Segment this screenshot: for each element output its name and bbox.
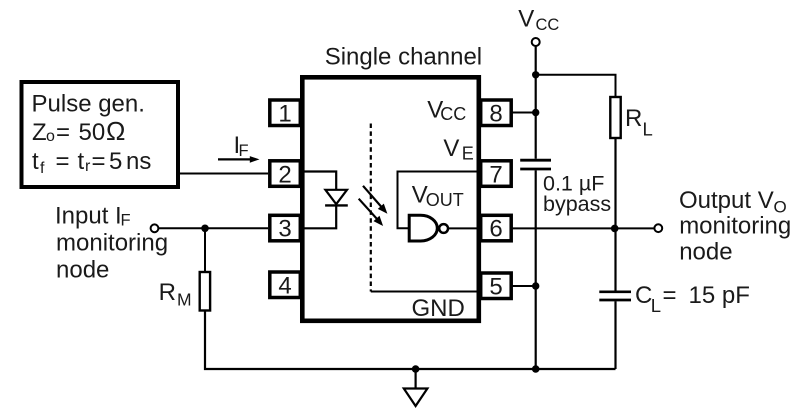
svg-text:3: 3 xyxy=(278,216,291,243)
svg-text:7: 7 xyxy=(489,161,502,188)
junction dot input/RM xyxy=(201,225,209,233)
wire pulse gen to pin 2 xyxy=(178,173,268,175)
svg-text:Z: Z xyxy=(32,119,47,146)
svg-text:Ω: Ω xyxy=(106,116,125,146)
wire bypass cap to pin5 node xyxy=(535,170,537,369)
junction dot pin8 xyxy=(532,109,539,116)
pin 6 box xyxy=(481,215,512,241)
junction dot bottom rail xyxy=(532,365,540,373)
svg-text:5: 5 xyxy=(109,148,122,175)
wire pin 5 to GND rail xyxy=(511,285,536,287)
pulse generator value "Zo = 50 ohm" xyxy=(32,116,125,146)
svg-text:f: f xyxy=(40,160,45,177)
svg-text:t: t xyxy=(78,148,85,175)
pin 2 box xyxy=(270,161,301,187)
svg-text:GND: GND xyxy=(412,295,465,322)
wire VCC rail to RL xyxy=(536,75,616,97)
svg-text:8: 8 xyxy=(489,100,502,127)
svg-text:=: = xyxy=(56,148,70,175)
wire output node to CL xyxy=(614,228,616,290)
svg-text:1: 1 xyxy=(278,100,291,127)
svg-text:R: R xyxy=(159,279,176,306)
resistor RL xyxy=(610,97,620,138)
light arrow 2 xyxy=(359,199,383,226)
wire LED cathode to pin3 xyxy=(304,205,336,228)
wire RM bottom to rail xyxy=(205,311,616,370)
svg-text:=: = xyxy=(92,148,106,175)
svg-text:=: = xyxy=(56,119,70,146)
VE wire rectangle to gate input xyxy=(398,172,479,229)
svg-text:L: L xyxy=(651,295,661,316)
svg-text:M: M xyxy=(177,290,192,310)
IC body U1 xyxy=(302,77,479,320)
wire CL bottom to rail xyxy=(614,301,616,369)
internal GND wire to pin 5 xyxy=(371,291,479,293)
gate U1 output stage xyxy=(409,215,448,241)
wire pin 8 to VCC rail xyxy=(511,112,536,114)
svg-text:CC: CC xyxy=(536,16,560,34)
bypass capacitor C1 plates xyxy=(520,160,551,169)
wire input node to pin 3 xyxy=(158,227,268,229)
pin 3 box xyxy=(270,215,301,241)
svg-text:C: C xyxy=(635,282,652,309)
ground symbol xyxy=(404,369,428,406)
optical barrier dashed line xyxy=(370,124,372,292)
svg-text:V: V xyxy=(443,135,459,162)
svg-text:15 pF: 15 pF xyxy=(689,282,750,309)
svg-text:Single channel: Single channel xyxy=(325,43,482,70)
pulse generator value "tf = tr = 5 ns" xyxy=(32,148,151,177)
svg-text:node: node xyxy=(56,257,109,284)
svg-text:E: E xyxy=(462,144,474,164)
output terminal open circle xyxy=(654,224,662,232)
junction dot pin 5 xyxy=(532,282,539,289)
svg-text:Input I: Input I xyxy=(55,203,122,230)
svg-text:L: L xyxy=(643,118,653,139)
svg-text:Output V: Output V xyxy=(679,187,774,214)
svg-text:2: 2 xyxy=(278,161,291,188)
wire gate output to pin 6 xyxy=(448,227,479,229)
svg-text:V: V xyxy=(518,5,534,32)
light arrow 1 xyxy=(363,186,387,214)
svg-text:monitoring: monitoring xyxy=(56,230,168,257)
resistor RM xyxy=(200,272,210,311)
current arrow IF xyxy=(218,156,260,163)
svg-text:F: F xyxy=(121,212,131,230)
svg-text:50: 50 xyxy=(79,119,106,146)
junction dot VCC top xyxy=(532,71,539,78)
wire pin 6 to output terminal xyxy=(511,227,655,229)
wire pin2 to LED anode xyxy=(304,172,336,190)
LED D1 xyxy=(325,190,348,206)
load capacitor CL plates xyxy=(599,292,631,300)
svg-text:F: F xyxy=(239,142,249,160)
svg-text:node: node xyxy=(679,238,732,265)
svg-text:ns: ns xyxy=(126,148,151,175)
junction dot ground stem xyxy=(412,365,420,373)
svg-text:t: t xyxy=(32,148,39,175)
svg-text:5: 5 xyxy=(489,274,502,301)
wire VCC vertical to bypass cap xyxy=(535,46,537,159)
pin 4 box xyxy=(270,272,301,298)
svg-text:R: R xyxy=(625,105,642,132)
pin 8 box xyxy=(481,100,512,126)
pin 5 box xyxy=(481,273,512,299)
svg-text:4: 4 xyxy=(278,273,291,300)
svg-text:CC: CC xyxy=(440,104,466,124)
pin 1 box xyxy=(270,100,301,126)
svg-text:OUT: OUT xyxy=(426,190,464,210)
wire RL to output node xyxy=(614,138,616,228)
svg-text:o: o xyxy=(46,128,55,145)
junction dot output node xyxy=(611,225,619,233)
pin 7 box xyxy=(481,161,512,187)
svg-text:r: r xyxy=(85,158,91,175)
svg-text:monitoring: monitoring xyxy=(679,212,791,239)
VCC terminal open circle xyxy=(532,38,540,46)
svg-text:bypass: bypass xyxy=(543,192,611,216)
pulse generator box xyxy=(22,82,179,187)
input node open circle xyxy=(151,224,159,232)
svg-text:6: 6 xyxy=(489,216,502,243)
svg-text:=: = xyxy=(663,282,677,309)
wire RM top xyxy=(204,228,206,272)
svg-text:Pulse gen.: Pulse gen. xyxy=(32,91,145,118)
